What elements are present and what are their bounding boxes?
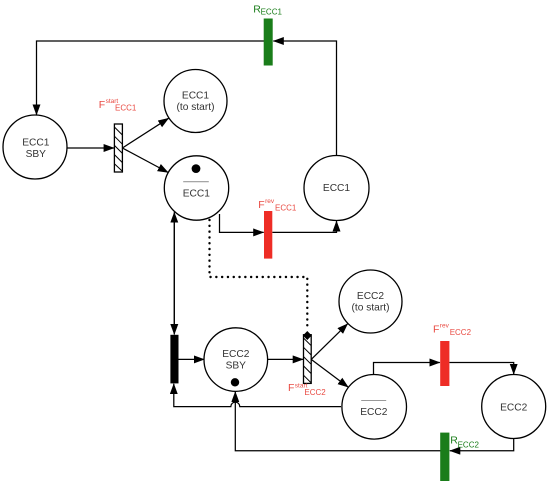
wire: F_rev_ECC2 to ECC2 [449,363,513,375]
svg-text:ECC1: ECC1 [275,203,297,212]
svg-text:ECC1: ECC1 [182,91,210,102]
svg-text:(to start): (to start) [177,102,215,113]
dotted arc: not-ECC1 to diamond on F_start_ECC2 [210,220,308,329]
label R_ECC1 [253,3,282,16]
wire: F_start_ECC2 to not-ECC2 [311,359,348,387]
wire: F_start_ECC1 to ECC1 (to start) [122,118,168,148]
svg-text:ECC2: ECC2 [222,349,250,360]
svg-text:F: F [288,382,294,394]
svg-text:F: F [99,99,105,111]
wire: F_rev_ECC1 to ECC1 [272,221,336,232]
place ECC1 (to start) [164,70,227,133]
place ECC2 SBY [204,328,268,392]
svg-text:ECC2: ECC2 [458,441,480,450]
svg-text:rev: rev [440,323,450,330]
token in ECC2 SBY [231,378,239,386]
token in not-ECC1 [192,164,201,173]
place not-ECC2 [342,375,407,440]
svg-text:rev: rev [265,198,275,205]
svg-text:ECC2: ECC2 [304,388,326,397]
wire: F_start_ECC2 to ECC2 (to start) [311,324,348,360]
transition R_ECC2 (green bar) [440,433,449,481]
place ECC1 SBY [3,115,67,179]
wire: ECC1 SBY to F_start_ECC1 [67,147,114,149]
svg-text:ECC1: ECC1 [183,188,211,199]
svg-text:SBY: SBY [26,149,47,160]
svg-text:F: F [433,324,439,336]
place ECC2 (to start) [339,270,402,333]
wire: place ECC1 to transition R_ECC1 (top right vertical + horizontal) [273,41,336,156]
label F_rev_ECC1 [258,198,297,213]
svg-text:(to start): (to start) [352,303,390,314]
transition F_start_ECC1 (hatched bar) [114,124,122,172]
wire: not-ECC2 to black transition (bottom path) [174,384,341,407]
svg-text:ECC1: ECC1 [323,183,351,194]
wire: R_ECC2 to ECC2 SBY [235,392,444,451]
svg-text:SBY: SBY [226,361,247,372]
wire: not-ECC2 to F_rev_ECC2 [374,363,440,375]
wire: ECC2 SBY to F_start_ECC2 [268,358,304,360]
transition black bar [170,335,178,384]
wire: F_start_ECC1 to not-ECC1 [122,148,168,173]
label R_ECC2 [450,435,479,450]
svg-text:ECC2: ECC2 [360,407,388,418]
wire: not-ECC1 to black transition (double arrow vertical) [173,215,175,335]
label F_start_ECC2 [288,382,326,397]
transition F_rev_ECC2 (red bar) [440,341,449,386]
wire: transition R_ECC1 to place ECC1 SBY (top left) [37,41,269,115]
svg-text:F: F [258,199,264,211]
place ECC1 [304,156,369,221]
overline of not-ECC1 [183,181,209,183]
svg-text:ECC1: ECC1 [261,8,283,17]
label F_start_ECC1 [99,98,137,113]
label F_rev_ECC2 [433,323,472,338]
svg-text:ECC2: ECC2 [500,402,528,413]
place ECC2 [482,375,546,439]
svg-text:ECC1: ECC1 [22,138,50,149]
svg-text:ECC1: ECC1 [115,103,137,112]
transition R_ECC1 (green bar) [264,19,273,66]
wire: not-ECC1 to F_rev_ECC1 [220,214,264,232]
transition F_rev_ECC1 (red bar) [264,211,272,259]
overline of not-ECC2 [361,400,386,402]
wire: black transition to ECC2 SBY [179,358,205,360]
diamond on F_start_ECC2 [303,331,312,340]
place not-ECC1 [164,156,228,220]
transition F_start_ECC2 (hatched bar) [304,335,312,384]
svg-text:ECC2: ECC2 [450,328,472,337]
wire: ECC2 to R_ECC2 [450,439,514,451]
svg-text:ECC2: ECC2 [357,291,385,302]
